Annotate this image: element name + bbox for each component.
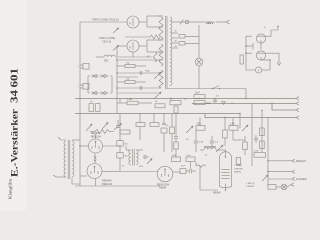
label KLINGER	[296, 178, 307, 181]
potentiometer P10 wiper	[262, 175, 268, 181]
svg-text:RE084: RE084	[159, 187, 167, 190]
svg-text:⊣: ⊣	[77, 85, 79, 88]
resistor R10	[170, 98, 181, 113]
label misc7	[181, 166, 186, 168]
svg-text:+: +	[264, 25, 266, 29]
label misc1	[155, 101, 158, 103]
svg-text:1 PAAR: 1 PAAR	[234, 164, 242, 167]
label input 2b	[102, 39, 112, 43]
resistor R14	[150, 114, 159, 127]
wire out2	[192, 102, 299, 105]
wire bus B+	[75, 97, 299, 100]
capacitor C2	[140, 86, 142, 90]
switch S3	[212, 86, 221, 90]
capacitor C11	[210, 136, 219, 147]
terminal plus marks	[264, 25, 279, 30]
label V6d	[213, 192, 221, 194]
svg-text:STROM/: STROM/	[234, 168, 243, 170]
resistor R18	[223, 130, 228, 146]
resistor R4	[117, 62, 146, 67]
tube V2	[127, 40, 139, 52]
svg-text:500: 500	[125, 144, 128, 146]
wire V2 input	[117, 45, 127, 47]
wire rail x262	[261, 110, 263, 152]
resistor R1	[153, 52, 157, 62]
tube V3	[89, 139, 103, 153]
capacitor C10	[194, 130, 204, 152]
wire monitor bottom2	[245, 43, 261, 50]
label bottom r2	[246, 186, 254, 188]
wire rectifier rail 2	[198, 66, 200, 89]
capacitor C4	[179, 42, 199, 45]
wire tone rail	[116, 46, 118, 113]
wire V1 anode	[139, 16, 163, 27]
node bus dots	[198, 98, 273, 105]
wire T2 top leads	[58, 137, 80, 140]
svg-text:2mF: 2mF	[206, 103, 211, 105]
resistor R12	[120, 130, 130, 134]
wire out 6	[268, 177, 295, 180]
wire V2 anode	[139, 40, 163, 52]
resistor R2	[77, 64, 89, 70]
wire left rail	[79, 22, 81, 186]
wire V4 right	[102, 170, 120, 172]
label misc8	[122, 166, 124, 168]
potentiometer P6 wiper	[102, 123, 108, 130]
wire rect drop	[245, 89, 247, 99]
tube V9	[256, 51, 265, 60]
potentiometer P5 wiper	[86, 124, 92, 131]
wire mains 3	[216, 21, 227, 23]
transformer T1 secondary	[170, 17, 172, 85]
resistor R13	[136, 114, 145, 141]
wire V4 left	[80, 175, 87, 177]
terminal mains arrow	[226, 20, 230, 24]
potentiometer P4 wiper	[154, 92, 161, 99]
diode D1	[222, 102, 226, 105]
transformer T1 primary	[159, 17, 163, 88]
wire V3 right	[103, 145, 121, 147]
tube V4	[87, 164, 102, 179]
tube V7 indicator	[195, 58, 203, 66]
svg-text:500: 500	[125, 156, 128, 158]
resistor R27	[117, 141, 128, 146]
wire tone h4	[117, 87, 158, 89]
label taps a	[175, 31, 178, 48]
resistor R24	[243, 136, 248, 155]
wire V4 to V5	[120, 171, 157, 173]
wire tone h3	[117, 76, 138, 78]
svg-text:1 MΩ (2): 1 MΩ (2)	[246, 183, 255, 185]
svg-text:2mF: 2mF	[195, 92, 200, 94]
wire bus2	[75, 113, 240, 115]
svg-text:200: 200	[104, 60, 109, 63]
wire T2 bottom lead left	[53, 175, 66, 177]
transformer T2 primary	[64, 141, 66, 177]
resistor R16	[196, 118, 205, 131]
node tone junction	[116, 59, 118, 89]
label FREQNT	[296, 160, 306, 163]
tube V1	[127, 16, 139, 28]
wire bottom join	[239, 113, 241, 128]
svg-text:REN1104: REN1104	[91, 136, 102, 138]
wire V6 bottom	[225, 184, 227, 191]
label mains 220V	[204, 21, 215, 25]
capacitor C1	[140, 71, 150, 76]
switch S1	[88, 75, 112, 78]
label misc3	[216, 96, 220, 98]
wire rectifier rail	[198, 25, 200, 58]
wire T2 bottom lead right	[72, 178, 80, 184]
potentiometer P3 wiper	[154, 72, 161, 79]
label input 2a	[99, 36, 115, 40]
label V6c	[234, 172, 241, 174]
capacitor C12	[143, 155, 149, 160]
resistor R7	[240, 55, 243, 64]
svg-text:STRUM: STRUM	[246, 186, 254, 188]
label misc9	[147, 56, 150, 58]
resistor R3	[77, 84, 89, 90]
svg-text:REN1104: REN1104	[102, 183, 113, 186]
wire tone h1	[117, 59, 163, 61]
resistor R9	[155, 104, 165, 108]
tube V5	[157, 166, 173, 182]
capacitor C15	[254, 150, 266, 157]
transformer T1 core	[166, 16, 167, 89]
svg-text:2mF: 2mF	[199, 142, 204, 144]
wire input top	[80, 21, 127, 23]
svg-text:TRIFG (VOM): TRIFG (VOM)	[99, 36, 115, 40]
svg-text:V: V	[258, 68, 260, 72]
meter M1	[256, 67, 262, 73]
wire V3 left	[79, 145, 88, 147]
label misc5	[186, 139, 190, 141]
label V6a	[234, 164, 242, 167]
potentiometer P8 wiper	[216, 145, 223, 152]
wire monitor left	[246, 36, 256, 70]
svg-text:KLINGER: KLINGER	[296, 178, 307, 181]
wire heater	[118, 52, 152, 57]
fuse F1	[185, 20, 188, 23]
wire monitor grid	[245, 52, 252, 54]
wire mains 2	[189, 21, 204, 23]
resistor R29 chain	[174, 114, 178, 158]
svg-text:30: 30	[175, 31, 177, 33]
transformer T3	[126, 146, 143, 166]
svg-text:CDU 1k: CDU 1k	[102, 39, 112, 43]
svg-text:WENN: WENN	[234, 172, 241, 174]
svg-text:2 MΩ: 2 MΩ	[127, 99, 133, 101]
title Klangfilm E.-Verstärker 34601	[8, 68, 21, 199]
resistor R26	[236, 158, 240, 165]
label T3	[139, 166, 144, 168]
wire out3	[272, 103, 299, 111]
wire tone h5	[117, 92, 158, 94]
resistor R15	[170, 114, 175, 153]
svg-text:TRIFG (VOM) TELE 1k: TRIFG (VOM) TELE 1k	[92, 17, 119, 21]
capacitor C7	[213, 98, 217, 103]
wire V5 coupling	[200, 165, 218, 190]
label misc4	[166, 125, 168, 127]
label V6b	[234, 168, 243, 170]
svg-text:34 601: 34 601	[10, 68, 21, 103]
resistor R28	[117, 153, 128, 158]
inductor L2 choke	[200, 146, 216, 150]
capacitor C5 block	[89, 101, 100, 111]
svg-text:⊣: ⊣	[77, 65, 79, 68]
label V4b	[102, 183, 113, 186]
svg-text:220V~: 220V~	[206, 21, 215, 25]
svg-text:RE604/: RE604/	[213, 192, 221, 194]
svg-text:2k: 2k	[184, 99, 186, 101]
capacitor C9	[161, 114, 167, 153]
wire screen	[224, 117, 226, 130]
wire T1 taps right	[172, 22, 178, 48]
resistor R22	[260, 110, 265, 136]
resistor R23	[260, 141, 265, 149]
terminal V9 arrow	[277, 62, 281, 65]
label V4a	[102, 180, 112, 183]
potentiometer P11 wiper	[147, 159, 152, 165]
wire mains	[178, 20, 185, 25]
lamp LP1	[281, 183, 294, 190]
resistor R11 zigzag	[90, 130, 114, 134]
svg-text:5k: 5k	[122, 166, 124, 168]
svg-text:E.-Verstärker: E.-Verstärker	[10, 108, 21, 177]
tube V8	[256, 34, 265, 43]
potentiometer P1 wiper	[113, 28, 119, 33]
svg-text:2mF: 2mF	[254, 150, 259, 152]
svg-text:Klangfilm: Klangfilm	[8, 178, 13, 199]
capacitor C17	[186, 155, 195, 169]
wire transformer bottom	[167, 88, 246, 90]
capacitor C16	[172, 155, 181, 162]
label V5a	[157, 183, 170, 186]
svg-text:1k: 1k	[166, 125, 168, 127]
wire V9 anode	[266, 53, 280, 63]
capacitor C8 trimmer	[114, 120, 122, 130]
wire V4 bottom rail	[75, 179, 160, 187]
potentiometer P7 wiper	[186, 126, 193, 133]
wire out freq	[267, 159, 295, 162]
resistor R8	[117, 98, 152, 104]
potentiometer P2 wiper	[113, 45, 119, 50]
wire V3 top	[95, 134, 97, 139]
label bottom r1	[246, 183, 255, 185]
capacitor C14	[254, 135, 258, 143]
resistor R21 zigzag	[196, 162, 206, 167]
capacitor C3	[179, 35, 199, 38]
wire heater V1	[125, 35, 160, 39]
switch S2	[88, 92, 112, 95]
wire rail x252	[251, 103, 253, 166]
label V3	[91, 133, 102, 138]
capacitor C6	[194, 92, 211, 105]
wire switch frame	[88, 76, 112, 93]
resistor R20	[180, 169, 189, 174]
potentiometer P9 wiper	[242, 125, 248, 131]
inductor L1	[96, 55, 115, 62]
wire v6 screen2	[233, 130, 245, 140]
transformer T2 secondary	[72, 141, 74, 177]
wire heater link	[94, 154, 96, 164]
label misc2	[184, 99, 186, 101]
wire monitor bottom	[261, 59, 271, 70]
wire V5 right	[173, 171, 180, 173]
svg-text:REN904: REN904	[91, 133, 100, 135]
label misc6	[205, 155, 208, 157]
wire tone h2	[117, 72, 158, 74]
wire out 5	[267, 170, 295, 173]
svg-text:FREQNT: FREQNT	[296, 160, 306, 163]
tube V6 output	[216, 150, 232, 188]
wire rail x268	[267, 118, 269, 187]
capacitor C13	[190, 169, 196, 174]
wire V8 anode	[266, 30, 279, 36]
label V5b	[159, 187, 167, 190]
wire rail x120	[119, 114, 121, 172]
wire T1 taps left	[158, 16, 161, 88]
resistor R25	[268, 185, 281, 190]
transformer T2 core	[68, 140, 70, 179]
wire out4	[205, 114, 299, 120]
resistor R17	[229, 118, 238, 131]
svg-text:750p: 750p	[145, 71, 151, 73]
label input top	[92, 17, 119, 21]
resistor R5	[117, 78, 146, 83]
